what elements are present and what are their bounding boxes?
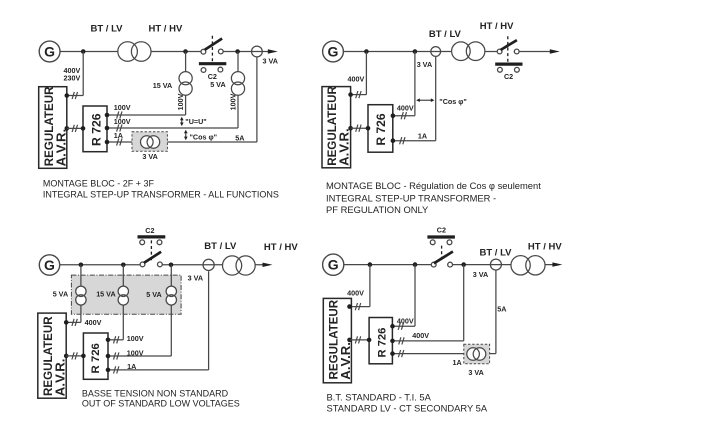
CT series 3VA Q2	[431, 47, 441, 57]
wire main bus Q2 left section	[343, 51, 497, 53]
transformer BT/LV Q1	[118, 42, 151, 62]
node R726 terminal 2 Q2	[391, 138, 396, 143]
contact C2 terminals Q2	[498, 67, 503, 72]
wire main bus Q3 right section	[162, 264, 264, 266]
wire main bus Q4 right section	[453, 264, 554, 266]
svg-text:G: G	[44, 44, 55, 60]
dashed link C2 Q2	[507, 36, 509, 62]
R726 box Q4	[369, 318, 392, 364]
svg-text:C2: C2	[504, 72, 513, 81]
svg-text:3 VA: 3 VA	[473, 270, 488, 279]
generator G Q4	[323, 254, 344, 275]
svg-text:100V: 100V	[127, 334, 144, 343]
wire PT2 to terminal Q3	[122, 305, 124, 340]
hash regulator wire Q4	[355, 336, 360, 343]
node R726 terminal 3 Q4	[390, 351, 395, 356]
node regulator terminal bottom Q3	[64, 354, 69, 359]
generator G Q1	[39, 41, 60, 62]
wire CT secondary Q3	[208, 271, 210, 370]
contact C2 terminals Q3	[140, 240, 145, 245]
hash terminal 3 Q3	[114, 366, 119, 373]
transformer PT 15VA Q1	[179, 72, 192, 96]
node R726 terminal 2 Q4	[390, 339, 395, 344]
switch blade Q2	[501, 40, 517, 50]
svg-text:G: G	[328, 44, 339, 60]
svg-text:"Cos φ": "Cos φ"	[439, 97, 467, 106]
dashed link C2 Q1	[211, 36, 213, 63]
switch blade Q1	[205, 39, 222, 50]
svg-text:A.V.R.: A.V.R.	[338, 342, 353, 380]
svg-text:HT / HV: HT / HV	[528, 241, 562, 252]
node sensing tap Q2	[364, 49, 369, 54]
arrow output Q1	[268, 49, 278, 53]
node R726 terminal 2 Q3	[106, 354, 111, 359]
svg-text:INTEGRAL STEP-UP TRANSFORMER -: INTEGRAL STEP-UP TRANSFORMER -	[326, 192, 496, 203]
wire sensing drop Q4	[369, 265, 371, 307]
node PT1 tap Q3	[79, 263, 84, 268]
svg-text:400V: 400V	[347, 288, 364, 297]
node R726 terminal 1 Q2	[391, 113, 396, 118]
svg-text:R 726: R 726	[90, 343, 102, 373]
svg-text:MONTAGE BLOC - Régulation de C: MONTAGE BLOC - Régulation de Cos φ seule…	[326, 180, 541, 191]
node PT2 tap Q3	[121, 263, 126, 268]
generator G Q2	[323, 41, 344, 62]
svg-text:A.V.R.: A.V.R.	[337, 128, 352, 166]
svg-text:3 VA: 3 VA	[188, 273, 203, 282]
wire CT secondary Q4	[495, 270, 497, 354]
transformer PT2 15VA Q3	[118, 286, 128, 305]
hash terminal 2 Q2	[400, 137, 405, 144]
svg-text:A.V.R.: A.V.R.	[52, 359, 67, 397]
wire regulator to R726 Q4	[350, 339, 370, 341]
wire main bus Q3 left section	[60, 264, 141, 266]
wire voltage drop 1 Q4	[414, 265, 416, 327]
node R726 terminal 1 Q4	[390, 324, 395, 329]
svg-text:"Cos φ": "Cos φ"	[190, 133, 218, 142]
svg-text:1A: 1A	[127, 362, 136, 371]
CT interposing 3VA Q4	[467, 348, 486, 361]
node regulator terminal top Q3	[64, 320, 69, 325]
svg-text:100V: 100V	[176, 93, 185, 110]
svg-text:BT / LV: BT / LV	[429, 29, 462, 40]
svg-text:HT / HV: HT / HV	[480, 21, 514, 32]
switch contact Q3	[140, 262, 145, 267]
svg-text:5A: 5A	[497, 304, 506, 313]
svg-text:3 VA: 3 VA	[417, 60, 432, 69]
node R726 input Q1	[81, 126, 86, 131]
hash PT1 wire Q3	[72, 319, 77, 326]
arrow output Q4	[552, 262, 562, 266]
svg-text:BASSE TENSION NON STANDARD: BASSE TENSION NON STANDARD	[82, 389, 229, 399]
svg-text:HT / HV: HT / HV	[264, 242, 298, 253]
contact C2 bar Q1	[199, 62, 226, 65]
svg-text:B.T. STANDARD - T.I. 5A: B.T. STANDARD - T.I. 5A	[327, 391, 432, 402]
dashed link C2 Q4	[441, 246, 443, 263]
hash terminal 1 Q3	[114, 336, 119, 343]
svg-text:R 726: R 726	[89, 113, 103, 146]
svg-text:5 VA: 5 VA	[146, 290, 161, 299]
svg-text:5 VA: 5 VA	[53, 290, 68, 299]
switch contact Q4	[431, 262, 436, 267]
svg-text:PF REGULATION ONLY: PF REGULATION ONLY	[326, 204, 429, 215]
svg-text:5A: 5A	[235, 134, 244, 143]
R726 box Q1	[83, 106, 107, 152]
svg-text:100V: 100V	[114, 103, 131, 112]
svg-text:3 VA: 3 VA	[142, 152, 157, 161]
svg-text:R 726: R 726	[374, 113, 388, 145]
svg-text:G: G	[328, 257, 339, 273]
hash regulator wire Q2	[356, 125, 361, 132]
svg-text:400V: 400V	[397, 316, 414, 325]
R726 box Q2	[368, 105, 393, 153]
node regulator terminal bottom Q4	[347, 338, 352, 343]
hash terminal 1 Q1	[117, 111, 122, 118]
node regulator terminal bottom Q1	[65, 126, 70, 131]
arrow U=U Q1	[180, 117, 184, 126]
R726 box Q3	[83, 333, 108, 379]
wire PT1 to regulator Q3	[80, 305, 82, 322]
wire main bus Q1 right section	[223, 51, 270, 53]
svg-text:INTEGRAL STEP-UP TRANSFORMER -: INTEGRAL STEP-UP TRANSFORMER - ALL FUNCT…	[43, 189, 279, 199]
transformer series PT 3VA Q1	[252, 46, 263, 57]
hash sensing wire Q1	[72, 92, 77, 99]
svg-text:C2: C2	[437, 226, 446, 235]
transformer BT/LV Q3	[223, 256, 256, 275]
wire voltage drop 2 Q4	[463, 265, 465, 341]
hash terminal 3 Q1	[117, 138, 122, 145]
node R726 input Q3	[81, 354, 86, 359]
hash terminal 2 Q4	[399, 337, 404, 344]
hash regulator wire Q1	[72, 125, 77, 132]
transformer PT1 5VA Q3	[76, 286, 86, 305]
hash terminal 1 Q2	[401, 112, 406, 119]
svg-text:BT / LV: BT / LV	[479, 248, 512, 259]
svg-text:100V: 100V	[229, 93, 238, 110]
wire series PT secondary Q1	[256, 57, 258, 142]
CT dashed box Q1	[132, 132, 167, 152]
svg-text:400V: 400V	[397, 103, 414, 112]
transformer PT3 5VA Q3	[166, 286, 176, 305]
svg-text:400V: 400V	[412, 331, 429, 340]
contact C2 terminals Q4	[430, 240, 435, 245]
wire regulator to R726 Q1	[67, 127, 83, 129]
switch blade Q3	[144, 252, 161, 263]
svg-text:BT / LV: BT / LV	[204, 241, 237, 252]
CT dashed box Q4	[464, 344, 490, 364]
node PT1 tap Q1	[183, 49, 188, 54]
switch blade Q4	[434, 252, 453, 264]
arrow output Q2	[550, 49, 560, 53]
wire voltage drop Q2	[414, 52, 416, 116]
hash regulator wire Q3	[72, 352, 77, 359]
transformer BT/LV Q4	[511, 256, 545, 275]
node regulator terminal top Q2	[348, 92, 353, 97]
node sensing tap Q4	[368, 262, 373, 267]
svg-text:HT / HV: HT / HV	[149, 23, 183, 34]
node sensing tap Q1	[81, 49, 86, 54]
wire regulator to R726 Q3	[66, 355, 84, 357]
wire regulator to R726 Q2	[351, 127, 368, 129]
wire main bus Q4 left section	[344, 264, 432, 266]
arrow Cos phi Q2	[416, 98, 434, 102]
dashed transformer box Q3	[71, 275, 181, 314]
CT 3VA Q1	[141, 136, 160, 149]
node R726 terminal 1 Q1	[105, 113, 110, 118]
node regulator terminal bottom Q2	[348, 126, 353, 131]
svg-text:400V: 400V	[85, 318, 102, 327]
svg-text:STANDARD LV - CT SECONDARY 5A: STANDARD LV - CT SECONDARY 5A	[327, 403, 488, 414]
switch contact Q2	[497, 49, 502, 54]
generator G Q3	[39, 255, 59, 275]
node voltage tap 1 Q4	[413, 262, 418, 267]
svg-text:1A: 1A	[114, 131, 123, 140]
svg-text:15 VA: 15 VA	[153, 81, 172, 90]
CT series 5A Q4	[490, 259, 501, 270]
node voltage tap Q2	[413, 49, 418, 54]
dashed link C2 Q3	[150, 240, 152, 262]
wire sensing drop Q1	[82, 52, 84, 96]
transformer PT 100V Q1	[231, 72, 244, 96]
wire PT1 to terminal U Q1	[185, 95, 187, 115]
svg-text:1A: 1A	[453, 358, 462, 367]
wire main bus Q1 left section	[60, 51, 201, 53]
hash terminal 2 Q3	[114, 352, 119, 359]
wire PT1 stub Q1	[185, 52, 187, 73]
wire PT1 stub Q3	[80, 265, 82, 287]
svg-text:A.V.R.: A.V.R.	[53, 129, 68, 167]
hash terminal 2 Q1	[117, 124, 122, 131]
hash sensing wire Q2	[356, 91, 361, 98]
node regulator terminal top Q1	[65, 93, 70, 98]
svg-text:OUT OF STANDARD LOW VOLTAGES: OUT OF STANDARD LOW VOLTAGES	[82, 399, 240, 409]
svg-text:G: G	[44, 257, 55, 273]
svg-text:100V: 100V	[127, 349, 144, 358]
regulator box Q2	[322, 87, 351, 168]
svg-text:C2: C2	[145, 226, 154, 235]
node R726 terminal 1 Q3	[106, 338, 111, 343]
contact C2 bar Q3	[138, 235, 166, 238]
svg-text:400V: 400V	[348, 75, 365, 84]
wire sensing drop Q2	[365, 52, 367, 95]
regulator box Q3	[38, 313, 66, 398]
contact C2 bar Q2	[495, 62, 522, 65]
svg-text:R 726: R 726	[376, 328, 388, 358]
svg-text:230V: 230V	[64, 74, 81, 83]
hash sensing wire Q4	[355, 303, 360, 310]
svg-text:15 VA: 15 VA	[96, 290, 115, 299]
node PT3 tap Q3	[169, 263, 174, 268]
wire PT2 stub Q3	[122, 265, 124, 287]
node R726 terminal 3 Q1	[105, 140, 110, 145]
node R726 input Q2	[366, 126, 371, 131]
svg-text:BT / LV: BT / LV	[90, 23, 123, 34]
node R726 terminal 2 Q1	[105, 126, 110, 131]
hash terminal 3 Q4	[398, 350, 403, 357]
svg-text:3 VA: 3 VA	[468, 368, 483, 377]
contact C2 terminals Q1	[201, 68, 206, 73]
node PT2 tap Q1	[235, 49, 240, 54]
contact C2 bar Q4	[427, 235, 455, 238]
regulator box Q4	[323, 298, 351, 382]
arrow output Q3	[263, 263, 273, 267]
node regulator terminal top Q4	[347, 304, 352, 309]
svg-text:3 VA: 3 VA	[263, 57, 278, 66]
wire PT3 stub Q3	[170, 265, 172, 287]
node R726 input Q4	[367, 338, 372, 343]
CT series 3VA Q3	[203, 259, 214, 270]
wire CT secondary Q2	[435, 57, 437, 141]
node voltage tap 2 Q4	[461, 262, 466, 267]
regulator box Q1	[39, 87, 67, 169]
svg-text:100V: 100V	[114, 117, 131, 126]
wire PT2 stub Q1	[237, 52, 239, 73]
wire main bus Q2 right section	[519, 51, 551, 53]
hash terminal 1 Q4	[398, 323, 403, 330]
transformer BT/LV Q2	[452, 42, 485, 61]
wire PT3 to terminal Q3	[170, 305, 172, 356]
svg-text:5 VA: 5 VA	[210, 80, 225, 89]
switch contact Q1	[201, 49, 206, 54]
wire PT2 to terminal U Q1	[237, 95, 239, 128]
svg-text:"U=U": "U=U"	[185, 117, 206, 126]
node R726 terminal 3 Q3	[106, 368, 111, 373]
svg-text:MONTAGE BLOC - 2F + 3F: MONTAGE BLOC - 2F + 3F	[43, 178, 155, 188]
arrow Cos phi Q1	[184, 130, 188, 141]
svg-text:1A: 1A	[418, 132, 427, 141]
